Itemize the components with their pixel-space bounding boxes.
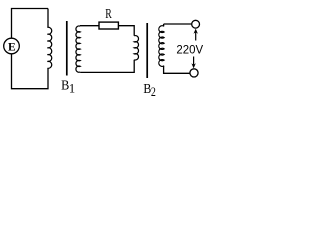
svg-text:2: 2 — [151, 86, 156, 99]
svg-text:1: 1 — [69, 81, 75, 95]
svg-text:E: E — [8, 42, 16, 54]
svg-text:220V: 220V — [176, 42, 203, 56]
svg-text:R: R — [105, 5, 112, 21]
